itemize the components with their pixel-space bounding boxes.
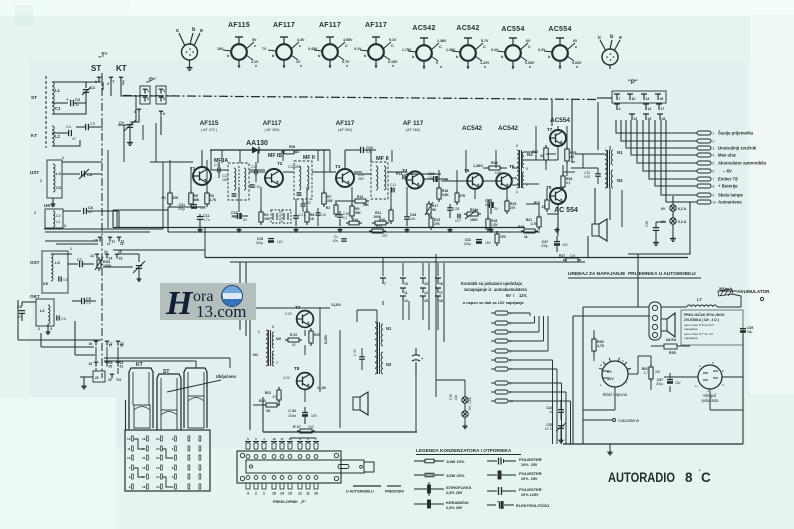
svg-text:5.1V: 5.1V — [389, 38, 397, 42]
resistor R27 100 — [566, 258, 578, 262]
slide switch inner bar — [246, 460, 364, 473]
svg-text:ST: ST — [31, 95, 37, 100]
svg-text:17: 17 — [280, 437, 284, 441]
svg-text:12: 12 — [298, 492, 302, 496]
svg-text:1.38V: 1.38V — [446, 48, 456, 52]
svg-text:3: 3 — [50, 327, 52, 331]
svg-text:19: 19 — [89, 362, 93, 366]
svg-text:0.2V: 0.2V — [538, 48, 546, 52]
wires above matrix — [125, 400, 127, 430]
svg-text:7V: 7V — [262, 47, 267, 51]
svg-text:0.43V: 0.43V — [308, 47, 318, 51]
svg-text:R13: R13 — [376, 225, 382, 229]
svg-text:11: 11 — [107, 242, 111, 246]
svg-text:10-70: 10-70 — [545, 427, 553, 431]
contact 3 — [137, 108, 141, 110]
capacitor C27 small — [457, 214, 459, 219]
svg-text:MF II: MF II — [303, 155, 315, 161]
svg-text:13.com: 13.com — [196, 302, 247, 321]
svg-text:R36: R36 — [289, 145, 295, 149]
capacitor C34 1n PSU — [558, 409, 564, 411]
svg-text:C38: C38 — [645, 221, 649, 227]
wires stage2 mesh — [249, 308, 251, 430]
electrolytic C32 200M 15V stage2 — [302, 412, 308, 414]
resistor R21 2.7k — [537, 217, 541, 227]
svg-text:1: 1 — [172, 456, 174, 460]
svg-text:20: 20 — [109, 365, 113, 369]
PSU frame wires — [572, 316, 574, 444]
plug pin 5 Akumulator automobila — [697, 161, 711, 165]
electrolytic C15 10u 6V — [237, 213, 239, 219]
capacitor C9 1.5 — [81, 298, 83, 304]
ground UST — [52, 198, 54, 202]
capacitor C20 small — [301, 203, 306, 205]
pushbutton ST piston — [157, 374, 181, 430]
svg-text:4: 4 — [163, 89, 165, 93]
svg-text:82: 82 — [292, 343, 296, 347]
svg-text:4,7: 4,7 — [644, 371, 649, 375]
connector block P pins — [614, 93, 620, 95]
capacitor C26 10n — [404, 216, 410, 218]
capacitor C8 47 — [19, 310, 25, 312]
capacitor C3 — [85, 124, 87, 130]
capacitor C6 33 — [63, 210, 81, 212]
svg-text:3: 3 — [122, 82, 124, 86]
svg-text:14: 14 — [648, 107, 652, 111]
svg-text:AF117: AF117 — [365, 22, 387, 29]
svg-text:200µ: 200µ — [178, 207, 185, 211]
svg-text:C: C — [701, 470, 711, 485]
svg-text:200µ: 200µ — [541, 244, 548, 248]
svg-text:STIROFLEKS: STIROFLEKS — [446, 485, 472, 490]
svg-text:22K: 22K — [327, 199, 334, 203]
svg-text:18: 18 — [120, 342, 124, 346]
resistor R18 2.7K — [486, 219, 490, 229]
svg-text:1: 1 — [263, 492, 265, 496]
svg-text:18: 18 — [662, 117, 666, 121]
svg-text:R20: R20 — [259, 399, 266, 403]
svg-text:1K: 1K — [310, 217, 315, 221]
wire dashdot to driver — [571, 99, 573, 162]
svg-text:6V: 6V — [573, 39, 578, 43]
resistor R11 100K — [389, 210, 393, 221]
svg-text:– 6V: – 6V — [723, 169, 732, 174]
wires P block to external plugs — [616, 120, 697, 133]
svg-text:R21: R21 — [265, 391, 271, 395]
svg-text:C 32: C 32 — [288, 409, 296, 413]
contact box 22 23 24 — [93, 371, 105, 382]
svg-text:C: C — [483, 45, 486, 49]
svg-text:AKUMULATOR: AKUMULATOR — [737, 289, 770, 294]
svg-text:1n: 1n — [549, 410, 553, 414]
svg-text:a napon se dati za 12V napajan: a napon se dati za 12V napajanja — [463, 300, 524, 305]
plug column PSU — [495, 311, 508, 315]
svg-text:2: 2 — [516, 144, 518, 148]
svg-text:c: c — [299, 44, 301, 48]
svg-text:2: 2 — [34, 211, 36, 215]
svg-text:5: 5 — [510, 350, 512, 354]
svg-text:C: C — [439, 45, 442, 49]
svg-text:1K: 1K — [266, 409, 271, 413]
svg-text:4.95V: 4.95V — [343, 38, 353, 42]
svg-text:27K: 27K — [460, 194, 467, 198]
plug pin 2 unlabelled — [697, 139, 711, 143]
ground — [556, 228, 558, 230]
capacitor C6 inside OKT — [56, 315, 58, 320]
svg-text:7: 7 — [713, 178, 715, 182]
resistor R22 82 — [544, 148, 548, 160]
wire autoantena down to PSU — [628, 202, 690, 254]
svg-text:2,7k: 2,7k — [531, 222, 537, 226]
svg-text:6: 6 — [510, 359, 512, 363]
svg-text:2: 2 — [113, 80, 115, 84]
svg-text:270: 270 — [510, 206, 516, 210]
resistor R36 33 — [284, 150, 294, 154]
plug pin 1 Šasija prijemnika — [697, 131, 711, 135]
svg-text:POLIESTER: POLIESTER — [519, 471, 542, 476]
svg-text:+: + — [497, 500, 499, 504]
svg-text:AC554: AC554 — [548, 26, 571, 33]
ground — [295, 228, 297, 230]
svg-text:AC554: AC554 — [550, 117, 570, 124]
resistor R14 small — [349, 221, 359, 225]
svg-text:15V: 15V — [675, 381, 682, 385]
svg-text:c: c — [575, 45, 577, 49]
svg-text:L1: L1 — [55, 88, 61, 93]
svg-text:T3: T3 — [335, 164, 341, 169]
svg-text:1,5: 1,5 — [86, 301, 91, 305]
labels u automobilu prenosni — [353, 485, 381, 487]
wire T3 top — [344, 150, 346, 169]
svg-text:11: 11 — [404, 291, 408, 295]
svg-text:R 27: R 27 — [293, 425, 301, 429]
switch contact 1 — [97, 76, 101, 78]
svg-text:e: e — [484, 65, 486, 69]
svg-text:15V: 15V — [485, 241, 492, 245]
svg-text:1k: 1k — [524, 235, 528, 239]
svg-text:2: 2 — [38, 327, 40, 331]
svg-text:3: 3 — [172, 437, 174, 441]
speaker PSU — [661, 319, 667, 331]
ground OKT — [47, 324, 49, 330]
svg-text:1: 1 — [258, 330, 260, 334]
svg-text:6: 6 — [172, 466, 174, 470]
svg-text:Unutrašnji zvučnik: Unutrašnji zvučnik — [718, 146, 757, 151]
resistor R1 22K — [168, 193, 172, 204]
legend stirofleks — [414, 488, 427, 490]
ground — [199, 228, 201, 230]
svg-text:14: 14 — [104, 250, 108, 254]
coil L2 — [52, 126, 54, 146]
svg-text:50K: 50K — [355, 211, 362, 215]
slide switch pins top — [246, 443, 250, 449]
legend poliester 125 — [487, 490, 497, 492]
svg-text:C1: C1 — [55, 106, 61, 111]
svg-text:AC542: AC542 — [456, 25, 479, 32]
wire frame around P block — [612, 91, 666, 103]
text prikljucak box — [681, 310, 743, 345]
svg-text:PRIKLJUČAK SPOLJNOG: PRIKLJUČAK SPOLJNOG — [684, 312, 725, 317]
resistor R26b 4.7 — [561, 176, 565, 187]
capacitor C5 inside OST — [58, 276, 60, 281]
svg-text:( AF 260): ( AF 260) — [265, 128, 280, 132]
ground under C38 — [655, 240, 657, 243]
resistor R19 270 — [505, 201, 509, 211]
bus lines mid-left — [44, 228, 163, 230]
svg-text:10n: 10n — [454, 394, 458, 400]
wires preklopnik mid down — [382, 301, 384, 305]
capacitor C38 10n — [655, 222, 657, 227]
wire mesh extra main band — [107, 150, 109, 228]
svg-text:0,2V: 0,2V — [285, 312, 293, 316]
resistor R25 4.7 — [565, 149, 569, 161]
svg-text:*24: *24 — [116, 378, 121, 382]
svg-text:H: H — [165, 285, 194, 322]
autoantena node PSU — [613, 419, 616, 422]
svg-text:T2: T2 — [277, 161, 283, 166]
electrolytic C15b 200u 12V — [268, 238, 274, 240]
svg-text:c: c — [598, 35, 601, 41]
svg-text:ZVUČNIKA ( 1W , 4 Ω ): ZVUČNIKA ( 1W , 4 Ω ) — [684, 317, 719, 322]
svg-text:1.75V: 1.75V — [402, 48, 412, 52]
svg-text:82: 82 — [540, 154, 544, 158]
svg-text:1: 1 — [147, 89, 149, 93]
svg-text:e: e — [255, 64, 257, 68]
wires lamps stage2 — [428, 263, 430, 330]
svg-text:N2: N2 — [386, 362, 392, 367]
connector P left contacts 1 2 — [140, 86, 150, 104]
matrix links — [134, 439, 144, 449]
ground — [449, 228, 451, 230]
wire T9 emitter to bus — [547, 204, 558, 214]
svg-text:e: e — [529, 65, 531, 69]
svg-text:R35: R35 — [669, 351, 676, 355]
coil L4 — [53, 211, 55, 227]
svg-text:0: 0 — [436, 61, 438, 65]
svg-text:17: 17 — [109, 342, 113, 346]
svg-text:9: 9 — [510, 391, 512, 395]
svg-text:9: 9 — [129, 485, 131, 489]
texture patch top-left — [15, 5, 33, 27]
resistor R12 56K — [355, 199, 366, 203]
resistor R02 4.7 2W — [649, 367, 653, 379]
svg-text:Autoantena: Autoantena — [718, 200, 742, 205]
svg-text:7: 7 — [510, 368, 512, 372]
svg-text:7: 7 — [129, 466, 131, 470]
svg-text:27K: 27K — [434, 222, 441, 226]
svg-text:e: e — [576, 65, 578, 69]
svg-text:56K: 56K — [363, 203, 370, 207]
svg-text:R12: R12 — [357, 195, 363, 199]
ground cluster — [80, 376, 93, 378]
svg-text:4,7n: 4,7n — [203, 218, 210, 222]
potentiometer R24 100K — [467, 212, 478, 216]
svg-text:200м: 200м — [288, 414, 297, 418]
svg-text:10n: 10n — [333, 239, 339, 243]
resistor R13b 270 — [372, 229, 383, 233]
svg-text:AF117: AF117 — [263, 120, 282, 127]
legend poliester 10 — [487, 460, 497, 462]
svg-text:C38: C38 — [449, 394, 453, 400]
contact matrix box — [125, 430, 210, 491]
svg-text:6V i 12V,: 6V i 12V, — [506, 293, 527, 298]
svg-text:33: 33 — [296, 150, 300, 154]
svg-text:68K: 68K — [194, 198, 201, 202]
svg-text:N1: N1 — [386, 326, 392, 331]
svg-text:R2: R2 — [326, 206, 330, 210]
svg-text:C6: C6 — [61, 317, 66, 321]
svg-text:15V: 15V — [562, 243, 569, 247]
svg-text:1: 1 — [510, 312, 512, 316]
svg-text:5V: 5V — [252, 38, 257, 42]
svg-text:e: e — [619, 35, 622, 41]
slide switch outer body — [237, 451, 341, 483]
svg-text:C5: C5 — [63, 278, 68, 282]
svg-text:250: 250 — [222, 178, 228, 182]
tuning capacitor main — [103, 266, 133, 268]
svg-text:1,38V: 1,38V — [473, 164, 483, 168]
capacitor C33 0.05 — [595, 173, 601, 175]
svg-text:13: 13 — [127, 456, 131, 460]
svg-text:200µ: 200µ — [464, 242, 471, 246]
svg-text:100: 100 — [308, 425, 314, 429]
band switch spine dash-dot — [101, 73, 103, 378]
coil L3 — [53, 164, 55, 192]
legend resistor 1/4W — [414, 460, 425, 462]
svg-text:4: 4 — [619, 107, 621, 111]
svg-text:R28: R28 — [491, 161, 498, 165]
svg-text:c: c — [254, 44, 256, 48]
svg-text:18V: 18V — [217, 47, 224, 51]
svg-text:2: 2 — [172, 447, 174, 451]
resistor R9 50K — [350, 206, 354, 216]
transistor socket menjac polariteta — [698, 365, 722, 389]
svg-text:AC542: AC542 — [462, 125, 482, 132]
svg-text:10% 25V: 10% 25V — [521, 463, 538, 467]
svg-text:ST: ST — [91, 64, 101, 73]
svg-text:R24: R24 — [470, 208, 476, 212]
svg-text:270: 270 — [382, 234, 388, 238]
svg-text:N1: N1 — [617, 150, 623, 155]
capacitor C17 — [293, 215, 299, 217]
svg-text:L5: L5 — [55, 260, 60, 265]
wire C6 to bus — [118, 211, 120, 228]
resistor R15 27K — [429, 218, 433, 227]
svg-text:9: 9 — [713, 194, 715, 198]
capacitor C28 — [447, 207, 453, 209]
resistor R26 27K — [455, 193, 459, 202]
svg-text:AC542: AC542 — [412, 25, 435, 32]
svg-text:C: C — [391, 44, 394, 48]
svg-text:2,7K: 2,7K — [210, 198, 217, 202]
resistor R27b 27K — [495, 234, 499, 243]
svg-text:8: 8 — [510, 382, 512, 386]
svg-text:6V: 6V — [661, 207, 666, 211]
resistor R6 1K — [305, 212, 309, 222]
svg-text:C: C — [345, 44, 348, 48]
svg-text:1.38V: 1.38V — [437, 39, 447, 43]
svg-text:12: 12 — [120, 242, 124, 246]
svg-text:C10/250: C10/250 — [288, 165, 300, 169]
svg-text:5: 5 — [172, 475, 174, 479]
svg-text:L3: L3 — [56, 171, 61, 176]
svg-text:0,2V: 0,2V — [283, 376, 291, 380]
svg-text:(AF 260): (AF 260) — [406, 128, 420, 132]
ceramic filter block B — [282, 210, 291, 223]
wire lamps — [672, 196, 674, 205]
svg-text:LEGENDA KONDENZATORA I OTPORNI: LEGENDA KONDENZATORA I OTPORNIKA — [416, 448, 512, 453]
electrolytic C31 200u 12V — [191, 204, 197, 206]
svg-text:2,5% 25V: 2,5% 25V — [446, 506, 463, 510]
svg-text:17: 17 — [661, 107, 665, 111]
wire fuse to L7 — [732, 294, 741, 307]
svg-text:C28: C28 — [453, 207, 459, 211]
svg-text:16: 16 — [89, 342, 93, 346]
svg-text:100K: 100K — [470, 218, 478, 222]
svg-text:1: 1 — [95, 80, 97, 84]
wire horizontals main band — [150, 161, 193, 163]
switch contacts 13 14 15 — [95, 253, 99, 255]
resistor R7 22K — [322, 193, 326, 204]
svg-text:POLIESTER: POLIESTER — [519, 457, 542, 462]
svg-text:5: 5 — [163, 97, 165, 101]
svg-text:22: 22 — [95, 376, 99, 380]
capacitor C4 47 — [52, 132, 68, 134]
svg-text:6A/Tw: 6A/Tw — [666, 338, 677, 342]
wires to P block left — [102, 82, 104, 90]
output transformer stage2 — [375, 322, 377, 374]
svg-text:R13: R13 — [396, 172, 402, 176]
svg-text:e: e — [346, 64, 348, 68]
wires PSU plugs to mesh — [508, 312, 530, 314]
wire L2 bottom — [52, 140, 80, 146]
svg-text:8: 8 — [526, 167, 528, 171]
svg-text:16: 16 — [288, 437, 292, 441]
svg-text:AF117: AF117 — [273, 22, 295, 29]
svg-text:2: 2 — [40, 179, 42, 183]
wire drops from main to stage2 — [239, 262, 241, 330]
ground bus main — [113, 227, 525, 229]
svg-text:2: 2 — [107, 82, 109, 86]
svg-text:C1: C1 — [90, 85, 96, 90]
plug pin 4 Max ulaz — [697, 153, 711, 157]
svg-text:2: 2 — [276, 361, 278, 365]
connector strip PSU — [649, 302, 661, 340]
potentiometer R33 100K — [97, 260, 101, 268]
ground under lamps — [672, 236, 674, 239]
ground PSU bottom — [609, 444, 611, 450]
capacitor C16 small — [316, 212, 321, 214]
svg-text:MF IB: MF IB — [268, 153, 282, 159]
svg-text:14: 14 — [280, 492, 284, 496]
svg-text:Akumulator automobila: Akumulator automobila — [718, 161, 767, 166]
svg-text:0,2 A: 0,2 A — [678, 207, 687, 211]
svg-text:10n: 10n — [410, 217, 416, 221]
plug pin 9 Skala lampe — [697, 193, 711, 197]
svg-text:KT: KT — [136, 362, 143, 368]
wires sockets — [628, 373, 638, 375]
variable capacitor C5 — [62, 173, 80, 175]
svg-text:200µ: 200µ — [656, 382, 663, 386]
svg-text:3: 3 — [272, 325, 274, 329]
resistor R20 1k — [524, 229, 535, 233]
svg-text:11,8V: 11,8V — [317, 386, 327, 390]
svg-text:10: 10 — [510, 400, 514, 404]
legend resistor 1/2W — [414, 474, 425, 476]
ground under legend transistor left — [189, 65, 191, 68]
svg-text:7: 7 — [384, 282, 386, 286]
svg-text:C19: C19 — [254, 185, 260, 189]
